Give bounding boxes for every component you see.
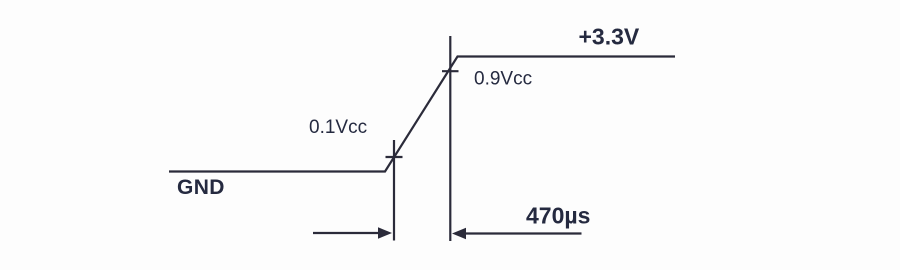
svg-text:0.9Vcc: 0.9Vcc — [474, 69, 532, 90]
node right arrowhead — [452, 228, 466, 240]
svg-text:+3.3V: +3.3V — [579, 24, 640, 50]
wire GND level + ramp + 3.3V level — [169, 57, 675, 172]
wire right arrow shaft — [464, 232, 582, 234]
svg-text:470µs: 470µs — [526, 203, 590, 229]
node 0.9Vcc tick — [442, 70, 459, 72]
node left arrowhead — [378, 227, 392, 239]
wire vertical marker at 0.9Vcc — [449, 36, 451, 241]
svg-text:GND: GND — [177, 176, 225, 199]
wire left arrow shaft — [313, 232, 380, 234]
node 0.1Vcc tick — [386, 156, 403, 158]
svg-text:0.1Vcc: 0.1Vcc — [309, 117, 367, 138]
wire vertical marker at 0.1Vcc — [393, 140, 395, 241]
